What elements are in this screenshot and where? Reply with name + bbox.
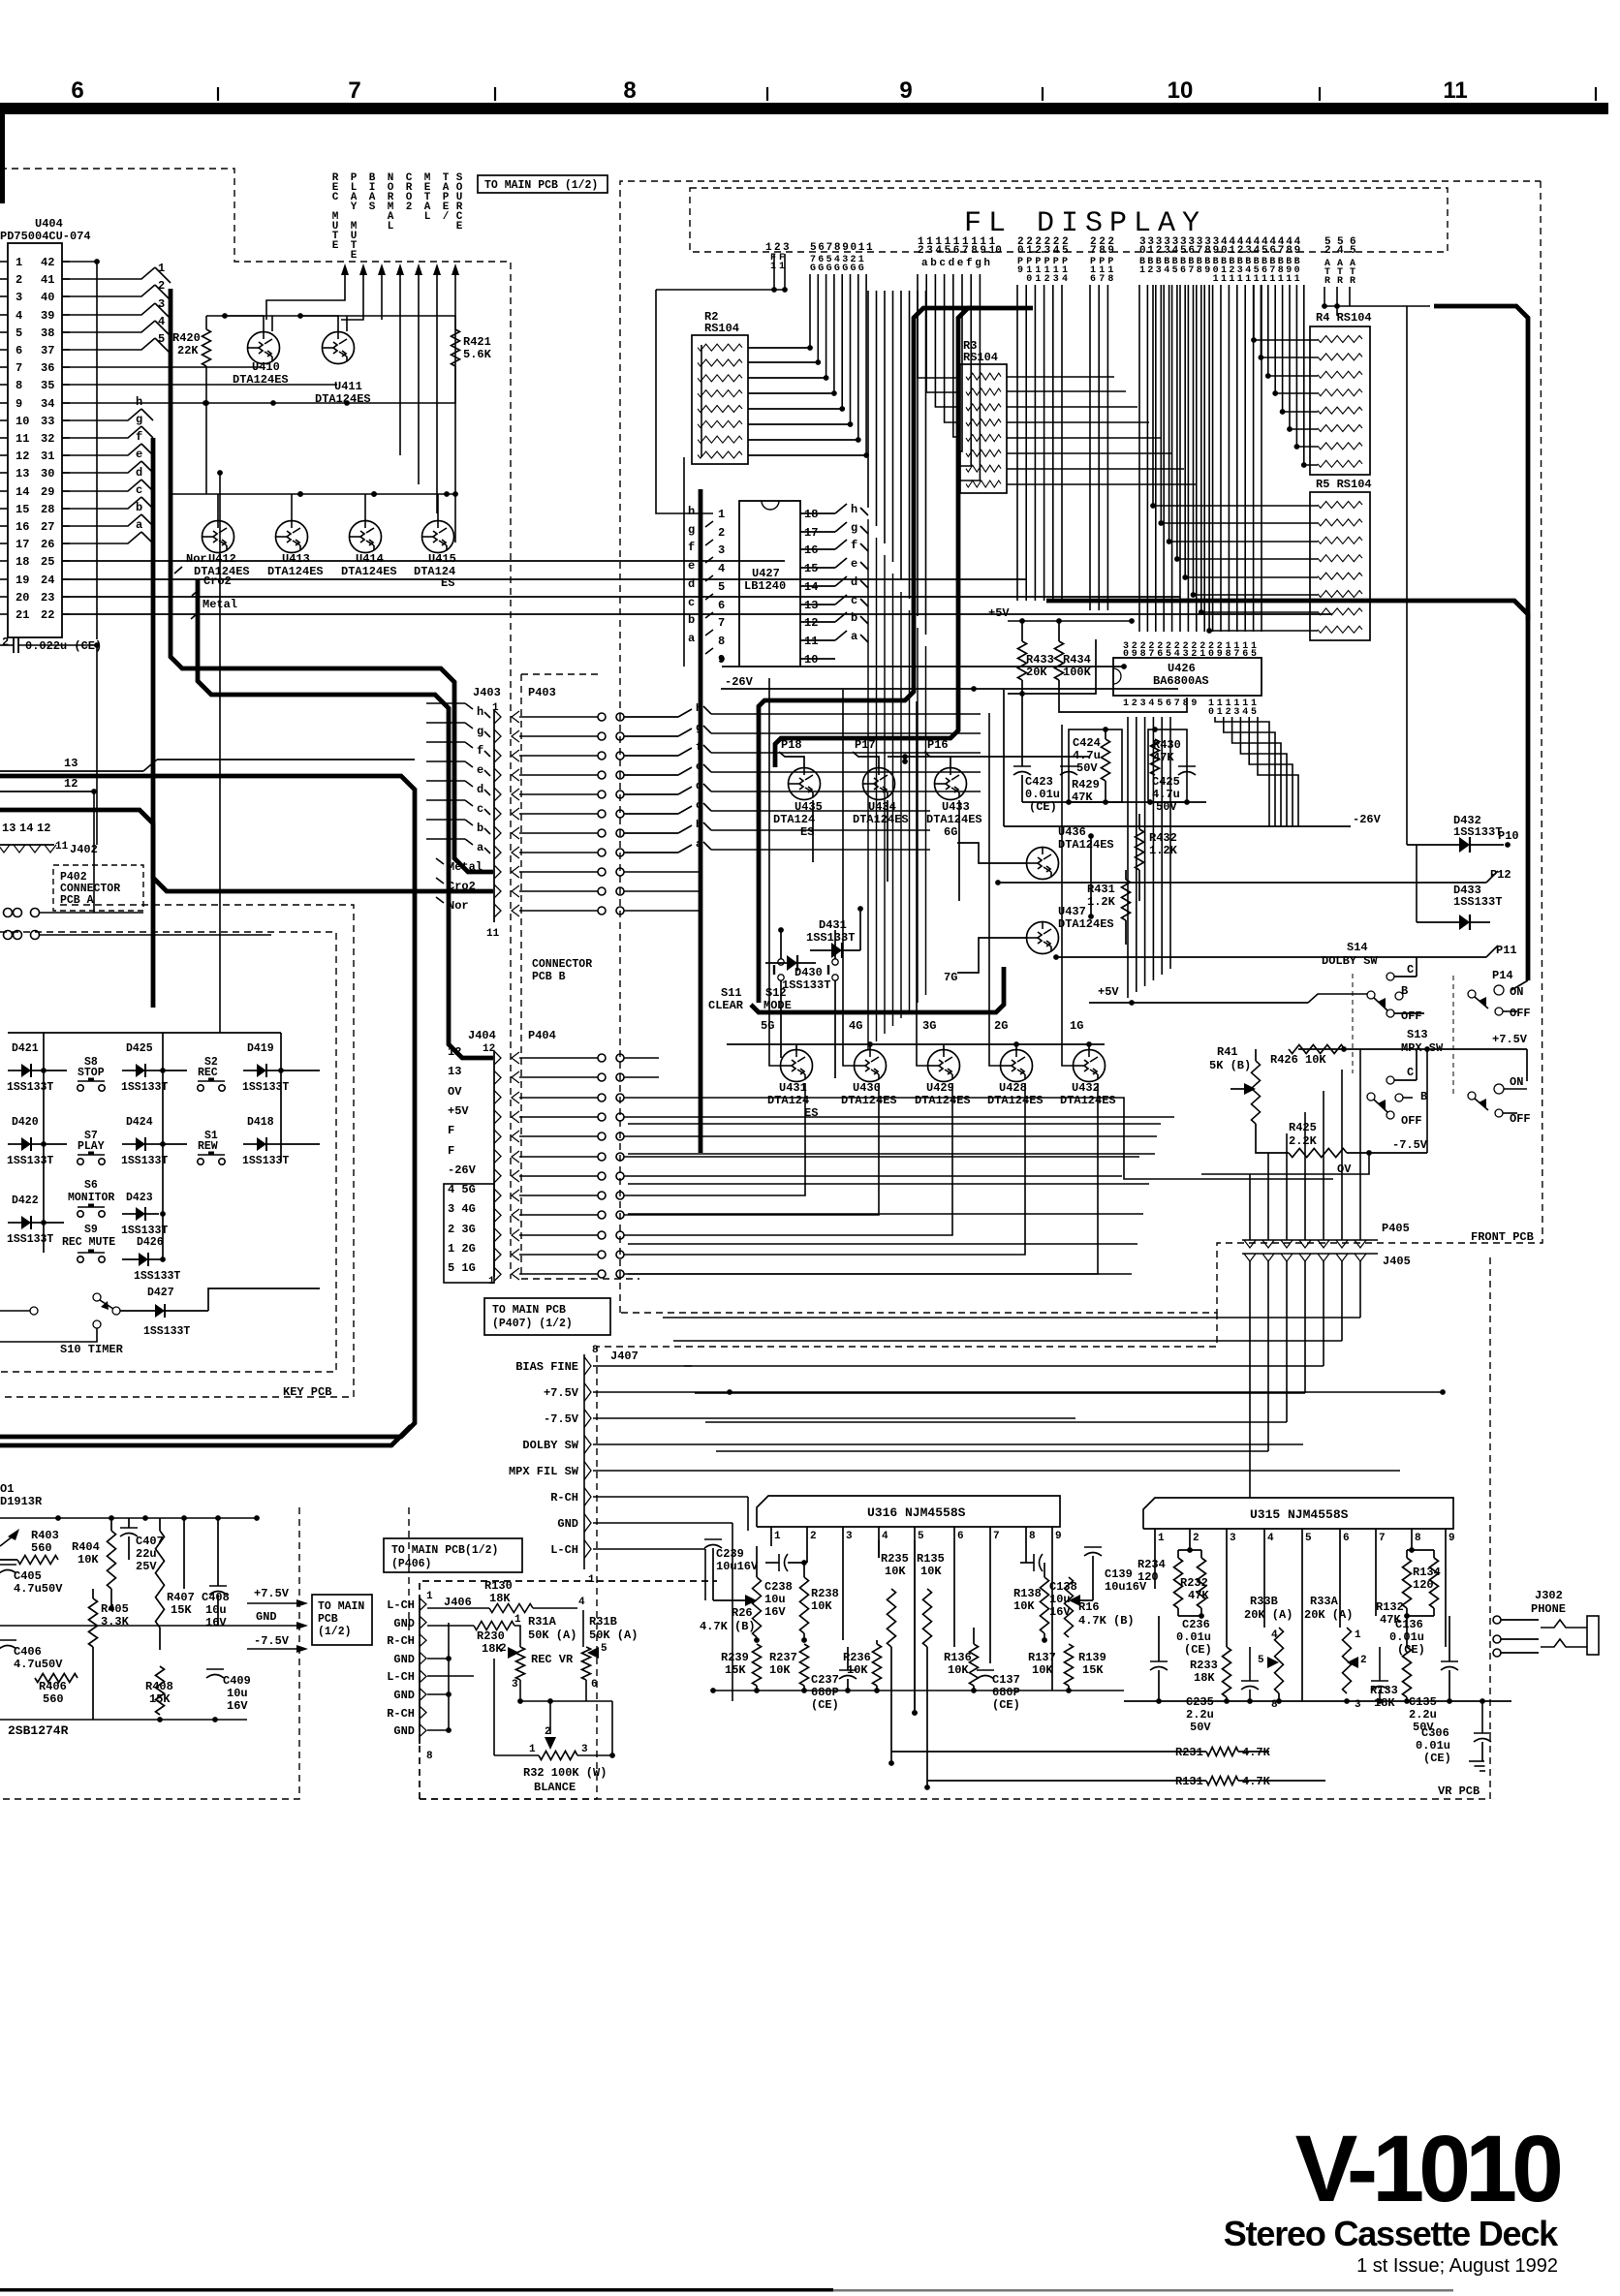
transistor U430 DTA124ES — [855, 1050, 887, 1082]
svg-text:TO MAIN: TO MAIN — [318, 1600, 364, 1613]
svg-text:R132: R132 — [1376, 1600, 1404, 1614]
svg-text:4.7K: 4.7K — [1242, 1775, 1271, 1788]
svg-text:h: h — [983, 258, 990, 269]
svg-text:5: 5 — [1258, 1655, 1264, 1666]
svg-text:9: 9 — [1017, 265, 1023, 276]
svg-text:e: e — [477, 763, 483, 777]
svg-text:R433: R433 — [1026, 653, 1054, 667]
svg-text:3: 3 — [1156, 265, 1162, 276]
svg-text:DTA124ES: DTA124ES — [1060, 1094, 1116, 1107]
svg-text:D430: D430 — [794, 966, 823, 979]
svg-text:MPX SW: MPX SW — [1401, 1041, 1444, 1055]
svg-text:d: d — [696, 781, 702, 792]
svg-text:1G: 1G — [1070, 1019, 1083, 1033]
resistor network R5 RS104 — [1310, 492, 1370, 640]
wire S13 ON to rail — [1504, 1049, 1527, 1089]
svg-text:L-CH: L-CH — [387, 1598, 415, 1612]
svg-text:C239: C239 — [716, 1547, 744, 1561]
svg-text:6: 6 — [1188, 245, 1195, 257]
connector P403 pin chevron — [512, 827, 519, 839]
svg-text:R136: R136 — [944, 1651, 972, 1664]
svg-text:Cro2: Cro2 — [448, 880, 476, 893]
svg-text:11: 11 — [804, 635, 818, 648]
svg-text:2SB1274R: 2SB1274R — [8, 1723, 69, 1738]
svg-text:b: b — [930, 258, 937, 269]
svg-text:C425: C425 — [1152, 775, 1180, 789]
svg-text:e: e — [696, 761, 702, 773]
svg-text:c: c — [851, 594, 857, 607]
diode D430 1SS133T — [787, 955, 797, 971]
resistor R430 47K box — [1148, 729, 1187, 802]
connector P403 pin chevron — [512, 769, 519, 781]
svg-text:R: R — [1350, 276, 1355, 287]
svg-text:24: 24 — [41, 574, 54, 587]
svg-text:1SS133T: 1SS133T — [121, 1155, 168, 1167]
svg-text:9: 9 — [1449, 1533, 1455, 1544]
svg-text:1: 1 — [1254, 274, 1260, 285]
svg-text:R421: R421 — [463, 335, 491, 349]
svg-text:7: 7 — [826, 242, 833, 254]
wire 12 line — [0, 791, 94, 792]
transistor U437 DTA124ES — [1027, 922, 1059, 954]
svg-text:R131: R131 — [1175, 1775, 1203, 1788]
svg-text:1: 1 — [1245, 274, 1251, 285]
wire U404 pin stub left — [0, 508, 8, 510]
wire U404 pin stub left — [0, 349, 8, 351]
wire J407 row right — [593, 1522, 732, 1524]
svg-text:R238: R238 — [811, 1587, 839, 1600]
wires J406 block stubs — [493, 1659, 495, 1755]
IC U426 BA6800AS — [1113, 658, 1262, 696]
svg-text:OFF: OFF — [1401, 1114, 1422, 1128]
wire U316 pin 9 — [1051, 1527, 1053, 1691]
wire U404 pin stub left — [0, 437, 8, 439]
svg-text:R-CH: R-CH — [387, 1707, 415, 1721]
svg-text:GND: GND — [557, 1517, 578, 1531]
svg-text:4: 4 — [1174, 649, 1180, 660]
svg-text:b: b — [688, 613, 695, 627]
connector P403 pin chevron — [512, 808, 519, 820]
svg-text:E: E — [351, 250, 358, 262]
svg-text:C238: C238 — [764, 1580, 793, 1594]
svg-text:S14: S14 — [1347, 941, 1368, 954]
svg-text:OFF: OFF — [1510, 1007, 1531, 1020]
svg-text:2.2u: 2.2u — [1409, 1708, 1437, 1722]
svg-text:4: 4 — [1053, 245, 1060, 257]
svg-text:5: 5 — [1305, 1533, 1312, 1544]
wires FL mid bundle descend — [867, 519, 869, 1049]
svg-text:DTA124ES: DTA124ES — [341, 565, 397, 578]
svg-text:P11: P11 — [1496, 944, 1517, 957]
svg-text:6: 6 — [1242, 649, 1248, 660]
P402 CONNECTOR PCB A dashed box — [53, 865, 143, 911]
svg-text:U433: U433 — [942, 800, 970, 814]
wires J405 descend to U315 — [1249, 1261, 1251, 1498]
wire thick bus left lower — [0, 810, 153, 1008]
ground symbol — [1469, 1760, 1484, 1762]
svg-text:7: 7 — [1197, 245, 1203, 257]
svg-text:G: G — [818, 264, 824, 274]
svg-text:11: 11 — [16, 432, 29, 446]
wire U316 pin 6 — [953, 1527, 955, 1647]
wire collector rail y510 — [171, 493, 455, 495]
svg-text:1SS133T: 1SS133T — [7, 1081, 53, 1094]
svg-text:DTA124ES: DTA124ES — [915, 1094, 971, 1107]
svg-text:R429: R429 — [1072, 778, 1100, 791]
svg-text:d: d — [688, 577, 695, 591]
svg-text:18K: 18K — [1194, 1671, 1215, 1685]
transistor U414 DTA124ES — [350, 521, 382, 553]
svg-text:1SS133T: 1SS133T — [806, 931, 855, 945]
svg-text:1: 1 — [866, 242, 873, 254]
svg-text:34: 34 — [41, 397, 54, 411]
wire U315 pin 9 — [1445, 1529, 1447, 1647]
diode D426 1SS133T — [139, 1253, 148, 1266]
svg-text:15: 15 — [804, 562, 818, 575]
svg-text:U414: U414 — [356, 552, 384, 566]
svg-text:4: 4 — [1242, 707, 1248, 718]
svg-text:U429: U429 — [926, 1081, 954, 1095]
wires P405 up staircase — [1249, 1174, 1251, 1240]
svg-text:7: 7 — [1188, 265, 1194, 276]
svg-text:e: e — [851, 557, 857, 571]
svg-text:(P406): (P406) — [391, 1558, 431, 1570]
svg-text:560: 560 — [31, 1541, 52, 1555]
svg-text:R33A: R33A — [1310, 1595, 1339, 1608]
svg-text:CLEAR: CLEAR — [708, 999, 744, 1012]
svg-text:G: G — [826, 264, 832, 274]
svg-text:4: 4 — [1267, 1533, 1274, 1544]
svg-text:8: 8 — [971, 245, 978, 257]
svg-text:1: 1 — [1026, 245, 1033, 257]
KEY PCB dashed box — [0, 932, 336, 1372]
svg-text:GND: GND — [393, 1724, 415, 1738]
svg-text:a: a — [688, 632, 695, 645]
arrows into TO MAIN PCB bus — [341, 264, 349, 275]
svg-text:6G: 6G — [944, 825, 957, 839]
transistor U431 DTA124ES — [781, 1050, 813, 1082]
svg-text:4: 4 — [1148, 698, 1154, 709]
svg-text:2: 2 — [1147, 265, 1153, 276]
transistor U433 DTA124ES P16 — [935, 768, 967, 800]
transistor Q401 emitter arrow — [8, 1529, 19, 1540]
svg-text:20K (A): 20K (A) — [1244, 1608, 1293, 1622]
svg-text:10: 10 — [804, 653, 818, 667]
svg-text:(CE): (CE) — [811, 1698, 839, 1712]
transistor U415 DTA124ES — [422, 521, 454, 553]
svg-text:d: d — [851, 575, 857, 589]
svg-text:1: 1 — [1269, 274, 1275, 285]
svg-text:g: g — [477, 725, 483, 738]
svg-text:DTA124ES: DTA124ES — [1058, 838, 1114, 852]
svg-text:h: h — [851, 503, 857, 516]
svg-text:+7.5V: +7.5V — [254, 1587, 290, 1600]
connector P403 pin chevron — [512, 789, 519, 800]
wire J406 junction column — [448, 1623, 450, 1730]
svg-text:PCB: PCB — [318, 1613, 338, 1626]
svg-text:U404: U404 — [35, 217, 63, 231]
svg-text:C: C — [1407, 963, 1414, 977]
svg-text:10u: 10u — [205, 1603, 227, 1617]
svg-text:9: 9 — [1213, 245, 1220, 257]
svg-text:CONNECTOR: CONNECTOR — [532, 958, 592, 971]
svg-text:1: 1 — [1278, 274, 1284, 285]
svg-text:9: 9 — [16, 397, 22, 411]
svg-text:25: 25 — [41, 555, 54, 569]
svg-text:3: 3 — [1230, 1533, 1236, 1544]
svg-text:16V: 16V — [205, 1616, 227, 1629]
svg-text:REC MUTE: REC MUTE — [62, 1236, 115, 1249]
svg-text:/: / — [443, 211, 450, 223]
svg-text:19: 19 — [16, 574, 29, 587]
wires P402 right — [40, 912, 143, 914]
svg-text:12: 12 — [64, 777, 78, 791]
transistor U435 DTA124ES P18 — [789, 768, 821, 800]
wires U404 pins 33-26 letter jog h-a — [62, 409, 141, 420]
svg-text:12: 12 — [16, 450, 29, 463]
svg-text:31: 31 — [41, 450, 54, 463]
svg-text:d: d — [136, 466, 142, 480]
wire P403 row to FL — [624, 871, 701, 873]
svg-text:U428: U428 — [999, 1081, 1027, 1095]
svg-text:P403: P403 — [528, 686, 556, 699]
svg-text:J407: J407 — [610, 1350, 639, 1363]
wire thick bus FL right — [775, 308, 1033, 767]
svg-text:C406: C406 — [14, 1645, 42, 1659]
svg-text:10K: 10K — [920, 1565, 942, 1578]
svg-text:4.7u50V: 4.7u50V — [14, 1658, 63, 1671]
svg-text:50K (A): 50K (A) — [589, 1629, 638, 1642]
wire thick bus FL G-row — [751, 967, 1004, 1012]
wire U427 right pin — [800, 567, 835, 569]
svg-text:S9: S9 — [84, 1224, 98, 1236]
svg-text:2G: 2G — [994, 1019, 1008, 1033]
TO MAIN PCB (P406) box — [384, 1538, 522, 1572]
svg-text:a: a — [696, 839, 702, 851]
svg-text:U316 NJM4558S: U316 NJM4558S — [867, 1505, 966, 1520]
svg-text:OV: OV — [1337, 1163, 1352, 1176]
wire U316 pin 2 — [806, 1527, 808, 1563]
svg-text:4: 4 — [1062, 274, 1068, 285]
transistor U432 DTA124ES — [1074, 1050, 1106, 1082]
svg-text:R404: R404 — [72, 1540, 100, 1554]
svg-text:c: c — [939, 258, 946, 269]
svg-text:g: g — [851, 521, 857, 535]
wire PLAY MUTE arrow — [341, 289, 363, 320]
switch S14 dashed link — [1352, 974, 1354, 1073]
svg-text:GND: GND — [393, 1653, 415, 1666]
svg-text:DTA124ES: DTA124ES — [841, 1094, 897, 1107]
svg-text:4G: 4G — [849, 1019, 862, 1033]
svg-text:22u: 22u — [136, 1547, 157, 1561]
svg-text:C409: C409 — [223, 1674, 251, 1688]
svg-text:D421: D421 — [12, 1042, 39, 1055]
svg-text:U432: U432 — [1072, 1081, 1100, 1095]
wire J407 row right — [593, 1443, 1303, 1445]
svg-text:3 4G: 3 4G — [448, 1202, 476, 1216]
svg-text:10K: 10K — [885, 1565, 906, 1578]
svg-text:5: 5 — [1166, 649, 1171, 660]
svg-text:15: 15 — [16, 503, 29, 516]
svg-text:R135: R135 — [917, 1552, 945, 1566]
svg-text:8: 8 — [1204, 245, 1211, 257]
svg-text:6: 6 — [957, 1531, 964, 1542]
svg-text:3.3K: 3.3K — [101, 1615, 130, 1629]
svg-text:a: a — [921, 258, 928, 269]
svg-text:h: h — [688, 505, 695, 518]
svg-text:17: 17 — [16, 538, 29, 551]
svg-text:C237: C237 — [811, 1673, 839, 1687]
svg-text:7: 7 — [1099, 274, 1105, 285]
svg-text:1: 1 — [1123, 698, 1129, 709]
svg-text:4.7K: 4.7K — [1242, 1746, 1271, 1759]
svg-text:S12: S12 — [765, 986, 787, 1000]
svg-text:5.6K: 5.6K — [463, 348, 492, 361]
svg-text:1SS133T: 1SS133T — [7, 1155, 53, 1167]
wire U316 bottom rail — [713, 1690, 1124, 1691]
wire key matrix columns — [43, 1033, 45, 1253]
svg-text:R31A: R31A — [528, 1615, 557, 1629]
svg-text:U426: U426 — [1168, 662, 1196, 675]
svg-text:R-CH: R-CH — [550, 1491, 578, 1505]
svg-text:2: 2 — [1324, 245, 1331, 257]
svg-text:R32 100K (W): R32 100K (W) — [523, 1766, 607, 1780]
svg-text:6: 6 — [953, 245, 960, 257]
svg-text:1: 1 — [16, 256, 22, 269]
svg-text:9: 9 — [899, 78, 912, 104]
svg-text:680P: 680P — [811, 1686, 839, 1699]
svg-text:L: L — [388, 221, 394, 233]
svg-text:6: 6 — [1166, 698, 1171, 709]
wire U404 pin stub left — [0, 366, 8, 368]
svg-text:13: 13 — [804, 599, 818, 612]
svg-text:R41: R41 — [1217, 1045, 1238, 1059]
svg-text:26: 26 — [41, 538, 54, 551]
svg-text:20K (A): 20K (A) — [1304, 1608, 1353, 1622]
svg-text:7: 7 — [1379, 1533, 1386, 1544]
svg-text:4: 4 — [1254, 245, 1261, 257]
wires R3 rows right — [1007, 376, 1114, 378]
svg-text:ES: ES — [804, 1106, 818, 1120]
svg-text:OFF: OFF — [1401, 1009, 1422, 1023]
svg-text:7: 7 — [1278, 245, 1285, 257]
svg-text:5: 5 — [945, 245, 951, 257]
svg-text:P404: P404 — [528, 1029, 556, 1042]
wire thick bus ATR to right edge — [1434, 306, 1528, 620]
svg-text:10: 10 — [989, 245, 1002, 257]
svg-text:5 1G: 5 1G — [448, 1261, 476, 1275]
svg-text:BIAS FINE: BIAS FINE — [515, 1360, 578, 1374]
svg-text:MPX FIL SW: MPX FIL SW — [509, 1465, 579, 1478]
svg-text:10: 10 — [16, 415, 29, 428]
svg-text:2: 2 — [1035, 245, 1042, 257]
wire U404 pin stub left — [0, 613, 8, 615]
wire U404 pin stub left — [0, 560, 8, 562]
svg-text:5: 5 — [1251, 707, 1257, 718]
left page dashed border top — [0, 169, 511, 1279]
svg-text:8: 8 — [623, 78, 636, 104]
svg-text:1: 1 — [529, 1744, 536, 1755]
svg-text:6: 6 — [1269, 245, 1276, 257]
svg-text:6: 6 — [591, 1679, 598, 1691]
svg-text:5: 5 — [1157, 698, 1163, 709]
wire U427 right pin — [800, 531, 835, 533]
svg-text:7: 7 — [1090, 245, 1097, 257]
svg-text:TO MAIN PCB: TO MAIN PCB — [492, 1304, 566, 1317]
svg-text:C236: C236 — [1182, 1618, 1210, 1631]
svg-text:STOP: STOP — [78, 1067, 105, 1079]
svg-text:g: g — [136, 413, 142, 426]
svg-text:14: 14 — [19, 822, 33, 835]
svg-text:13: 13 — [64, 757, 78, 770]
svg-text:E: E — [456, 221, 463, 233]
svg-text:0: 0 — [1208, 707, 1214, 718]
wire R2 top feed — [656, 289, 785, 291]
svg-text:P17: P17 — [855, 738, 876, 752]
wires FL group1 down — [773, 254, 775, 290]
svg-text:L-CH: L-CH — [387, 1670, 415, 1684]
wire J407 row right — [593, 1470, 1400, 1472]
transistor U410 DTA124ES — [248, 332, 280, 364]
wire thick bus big C left — [0, 776, 415, 1437]
FL DISPLAY inner dashed box — [690, 188, 1448, 252]
svg-text:2: 2 — [1044, 274, 1050, 285]
svg-text:TO MAIN PCB (1/2): TO MAIN PCB (1/2) — [484, 179, 598, 192]
svg-text:DTA124ES: DTA124ES — [194, 565, 250, 578]
wires J404 rows right — [659, 1057, 1250, 1059]
svg-text:29: 29 — [41, 485, 54, 499]
svg-text:1: 1 — [779, 262, 785, 272]
svg-text:f: f — [696, 742, 702, 754]
wire bus row y416 — [270, 400, 276, 406]
wire U315 pin 3 — [1226, 1529, 1228, 1616]
wire U315 pin 1 — [1154, 1529, 1156, 1589]
IC U316 NJM4558S — [757, 1496, 1060, 1527]
wires switch area frame — [1255, 1049, 1257, 1061]
wire thick bus FL display left vertical — [699, 489, 703, 1153]
svg-text:4: 4 — [882, 1531, 888, 1542]
CONNECTOR PCB B dashed box — [521, 673, 602, 675]
svg-text:DTA124ES: DTA124ES — [853, 813, 909, 826]
svg-text:4: 4 — [16, 309, 22, 323]
svg-text:S10 TIMER: S10 TIMER — [60, 1343, 124, 1356]
svg-text:U430: U430 — [853, 1081, 881, 1095]
svg-text:1: 1 — [1158, 1533, 1165, 1544]
svg-text:11: 11 — [55, 841, 69, 853]
svg-text:B: B — [1401, 984, 1408, 998]
ruler bar — [0, 103, 1608, 114]
connector P403 pin chevron — [512, 847, 519, 858]
svg-text:U410: U410 — [252, 360, 280, 374]
svg-text:1: 1 — [1147, 245, 1154, 257]
svg-text:-7.5V: -7.5V — [1392, 1138, 1428, 1152]
svg-text:50V: 50V — [1076, 761, 1098, 775]
svg-text:C405: C405 — [14, 1569, 42, 1583]
svg-text:P14: P14 — [1492, 969, 1513, 982]
svg-text:32: 32 — [41, 432, 54, 446]
svg-text:1: 1 — [718, 508, 725, 521]
svg-text:1: 1 — [1229, 274, 1234, 285]
wires U426 bottom right staircase — [1215, 717, 1269, 826]
svg-text:3: 3 — [718, 543, 725, 557]
svg-text:35: 35 — [41, 379, 54, 392]
wire U427 right pin — [800, 639, 835, 641]
svg-text:C137: C137 — [992, 1673, 1020, 1687]
svg-text:R: R — [1337, 276, 1343, 287]
svg-text:9: 9 — [980, 245, 986, 257]
svg-text:Stereo Cassette Deck: Stereo Cassette Deck — [1224, 2214, 1559, 2253]
svg-text:U435: U435 — [794, 800, 823, 814]
